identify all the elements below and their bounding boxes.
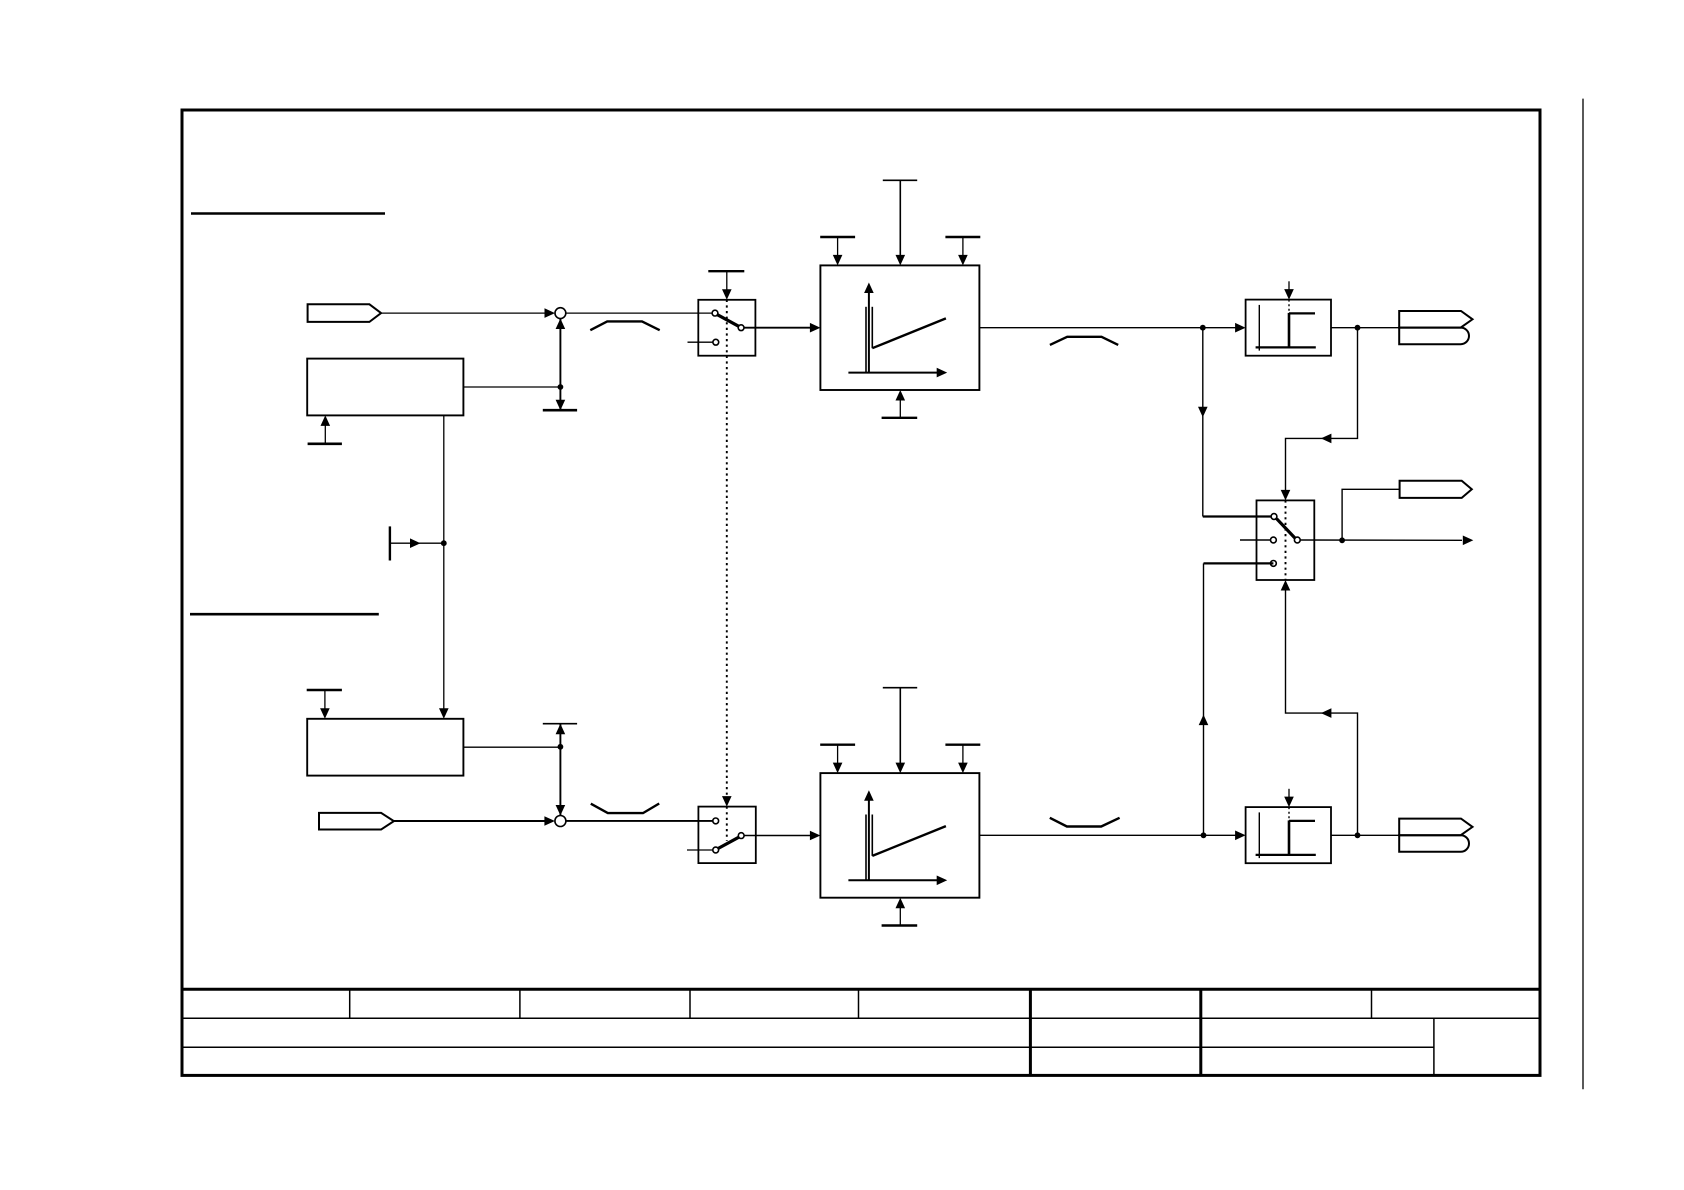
wire summing node A1 to switch S1 xyxy=(566,312,712,314)
wire input X2 to summing node A2 xyxy=(394,820,545,822)
S3 lever xyxy=(1277,519,1295,538)
RG1 parameter T-bar left xyxy=(820,236,855,238)
switch S2 contact in1 xyxy=(713,818,719,824)
RG1 parameter arrow below xyxy=(899,400,901,418)
switch S2 lever xyxy=(718,837,738,848)
switch S1 box xyxy=(698,300,755,356)
title block grid xyxy=(182,989,1540,1075)
L1 threshold input arrow above xyxy=(1288,281,1290,291)
selector switch S3 box xyxy=(1257,500,1315,580)
switch S1 contact in2 stub xyxy=(688,341,713,343)
switch S2 contact in2 stub xyxy=(687,849,713,851)
L1 icon step edge xyxy=(1288,313,1291,348)
RG2 parameter T-bar right xyxy=(945,744,980,746)
ramp generator RG1 box xyxy=(820,265,979,390)
switch S2 box xyxy=(698,807,755,864)
tracking input T-bar with arrow xyxy=(389,526,391,560)
junction feeding selector rise (lower rail) xyxy=(1201,832,1207,838)
junction on limit arrow (lower) xyxy=(558,744,564,750)
output connector K3 (mid right) xyxy=(1400,481,1472,498)
switch S1 contact in2 xyxy=(713,339,719,345)
heading underline lower xyxy=(190,613,379,616)
binary indicator block L1 box xyxy=(1246,300,1331,356)
RG2 parameter T-bar left xyxy=(820,744,855,746)
S3 contact b stub xyxy=(1240,539,1270,541)
RG2 parameter T-bar center xyxy=(883,687,917,689)
output connector K1 (double, upper) xyxy=(1399,311,1472,328)
L1 icon horizontal axis xyxy=(1256,346,1316,348)
bidirectional limit arrow above summing node A2 xyxy=(559,724,561,816)
switch S1 lever xyxy=(718,315,739,326)
parameter input below B1 xyxy=(324,424,326,444)
wire B1 bottom to B2 top xyxy=(443,415,445,710)
setpoint block B2 (lower) xyxy=(307,719,463,776)
switch S1 contact common xyxy=(738,325,744,331)
RG1 icon ramp response xyxy=(872,318,946,348)
wire summing node A2 to switch S2 xyxy=(566,820,713,822)
open output arrow right xyxy=(1463,536,1474,546)
wire input X1 to summing node xyxy=(381,312,545,314)
wire B2 output to junction xyxy=(463,746,560,748)
drawing frame border xyxy=(182,110,1540,1075)
L1 icon step high level xyxy=(1289,312,1315,314)
L2 icon threshold dotted xyxy=(1288,807,1290,820)
output connector K2 (double, lower) xyxy=(1399,819,1472,836)
RG2 icon y-axis xyxy=(868,799,870,881)
RG1 icon step input lines xyxy=(865,307,867,373)
L2 icon step high level xyxy=(1289,820,1315,822)
S3 contact a xyxy=(1271,514,1277,520)
junction after L2 xyxy=(1355,832,1361,838)
junction after L1 xyxy=(1355,325,1361,331)
S3 contact c xyxy=(1271,561,1277,567)
wire S3 common output xyxy=(1300,539,1462,541)
RG1 parameter T-bar right xyxy=(945,236,980,238)
L2 icon step edge xyxy=(1288,820,1291,855)
L2 threshold input arrow above xyxy=(1288,789,1290,799)
wire L1 output to connector K1 xyxy=(1331,327,1399,329)
switch S1 contact in1 xyxy=(712,310,718,316)
input connector X1 (upper) xyxy=(308,304,382,322)
wire upper rail down to selector S3 input a xyxy=(1202,328,1204,517)
parameter T-bar above switch S1 xyxy=(708,270,744,272)
RG2 parameter arrow below xyxy=(899,907,901,925)
RG2 icon step input lines xyxy=(865,815,867,881)
heading underline upper xyxy=(191,212,385,215)
bidirectional limit arrow below summing node A1 xyxy=(559,319,561,411)
junction on S3 output xyxy=(1339,537,1345,543)
limiter characteristic (lower, after A2) xyxy=(591,804,659,814)
wire S3 output up to connector K3 xyxy=(1342,489,1400,540)
ramp generator RG2 box xyxy=(820,773,979,898)
S3 contact common xyxy=(1294,537,1300,543)
binary indicator block L2 box xyxy=(1246,807,1331,863)
setpoint block B1 (upper) xyxy=(307,359,463,416)
limiter characteristic (lower, after RG2) xyxy=(1050,818,1120,827)
switch S2 contact in2 xyxy=(713,847,719,853)
wire RG2 output to limiter block L2 xyxy=(979,834,1235,836)
wire S2 to ramp generator RG2 xyxy=(744,835,810,837)
limiter characteristic (upper, after RG1) xyxy=(1050,337,1118,345)
wire RG1 output to limiter block L1 xyxy=(979,327,1235,329)
parameter T-bar above setpoint block B2 xyxy=(307,689,342,691)
switch S1 selection dotted line down to S2 xyxy=(726,300,728,798)
RG1 parameter T-bar center xyxy=(883,179,917,181)
RG1 icon y-axis xyxy=(868,292,870,374)
summing node A2 xyxy=(555,816,566,827)
wire B1 output to junction xyxy=(463,386,560,388)
wire lower rail up to selector S3 input c xyxy=(1204,562,1274,564)
feedback wire L1 output down to selector S3 top xyxy=(1286,328,1358,492)
limiter characteristic (upper, after A1) xyxy=(590,321,659,330)
L2 icon vertical axis xyxy=(1258,812,1260,858)
L1 icon threshold dotted xyxy=(1288,300,1290,313)
S3 contact b xyxy=(1271,537,1277,543)
S3 selection dotted line xyxy=(1285,500,1287,580)
RG1 icon x-axis xyxy=(848,372,938,374)
wire S1 to ramp generator RG1 xyxy=(744,327,810,329)
RG2 icon ramp response xyxy=(872,826,946,856)
junction on limit arrow (upper) xyxy=(558,384,564,390)
arrow into B2 top xyxy=(439,708,449,719)
junction feeding selector drop (upper rail) xyxy=(1200,325,1206,331)
summing node A1 xyxy=(555,308,566,319)
feedback wire L2 output up to selector S3 bottom xyxy=(1286,588,1358,835)
page margin line right xyxy=(1582,99,1584,1090)
L2 icon horizontal axis xyxy=(1256,854,1316,856)
arrow into summing node A1 xyxy=(545,308,556,318)
RG2 icon x-axis xyxy=(848,879,938,881)
switch S2 contact common xyxy=(738,833,744,839)
input connector X2 (lower) xyxy=(319,813,394,830)
junction on B1-B2 wire xyxy=(441,540,447,546)
L1 icon vertical axis xyxy=(1258,305,1260,351)
wire L2 output to connector K2 xyxy=(1331,834,1399,836)
